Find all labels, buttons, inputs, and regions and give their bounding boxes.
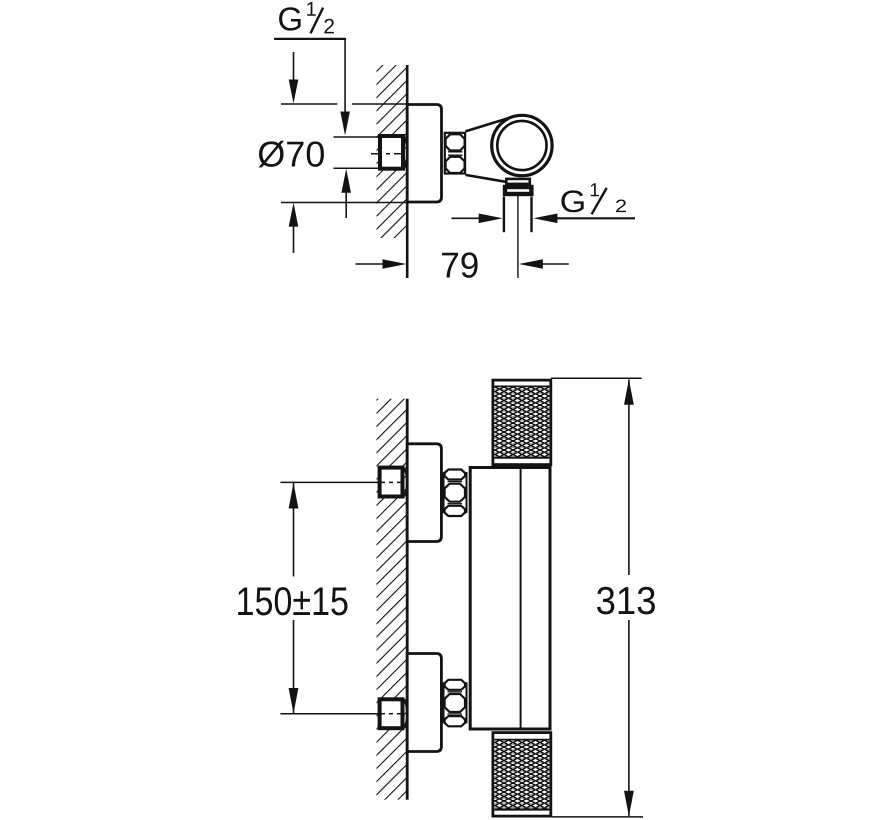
square union nut in wall (top view): [380, 136, 403, 169]
label G half top-left G: [279, 7, 301, 30]
extension line O70 lower: [334, 167, 379, 169]
hex connection nut (top view): [445, 133, 465, 174]
lower square union nut in wall: [380, 699, 403, 728]
extension line flange top: [281, 103, 337, 105]
dimension 313 arrowhead down: [624, 791, 634, 817]
upper knurled knob: [493, 380, 551, 465]
arrow up to O70 lower line: [345, 192, 347, 218]
escutcheon flange (top view): [407, 105, 441, 203]
holder ring outer circle: [492, 115, 552, 175]
label G half top-left underline: [274, 38, 346, 40]
upper escutcheon: [407, 444, 441, 542]
dimension line 313 lower part: [628, 620, 630, 816]
lower union nut chamfer arc: [404, 700, 407, 729]
holder cone top edge: [465, 117, 513, 132]
holder cone bottom edge: [465, 175, 508, 182]
dimension text 313: [597, 587, 655, 615]
lower escutcheon: [407, 654, 441, 752]
leader arrowhead down to union nut: [340, 112, 350, 136]
extension line 313 bottom: [552, 816, 643, 818]
arrow down to flange top extension line: [293, 52, 295, 81]
upper union nut chamfer arc: [404, 468, 407, 497]
body inner vertical line: [520, 467, 522, 729]
G half pipe dimension left arrow: [452, 217, 480, 219]
arrow up to flange bottom extension line: [293, 226, 295, 253]
dimension line 150 upper part: [293, 483, 295, 577]
extension line 313 top: [551, 377, 642, 379]
dimension line 150 lower part: [293, 620, 295, 713]
wall surface line (front view): [406, 399, 409, 800]
thermostat body: [470, 468, 550, 730]
extension line O70 upper: [334, 136, 379, 138]
dimension 79 right arrow: [519, 259, 543, 269]
label G half top-left numeral 2: [324, 19, 334, 34]
union nut chamfer arc (top view): [404, 136, 407, 168]
label G half right numeral 1: [591, 183, 599, 196]
dimension text 79: [442, 252, 478, 277]
pipe centerline: [517, 196, 519, 278]
hose pipe right edge: [530, 197, 532, 233]
label G half right fraction slash: [592, 188, 607, 214]
wall hatched section (front view): [377, 399, 408, 800]
upper union nut centerline: [376, 481, 404, 483]
leader line from G half label: [344, 39, 346, 114]
label G half top-left fraction slash: [311, 8, 324, 34]
union nut centerline (top view): [371, 153, 405, 155]
extension line flange bottom: [281, 202, 407, 204]
extension line lower connection: [280, 713, 378, 715]
label G half right: [561, 190, 583, 212]
lower hex union nut: [444, 680, 467, 727]
upper square union nut in wall: [380, 468, 403, 497]
dimension 150 arrowhead down: [289, 688, 299, 714]
dimension text O70: [259, 141, 324, 168]
upper hex union nut: [444, 470, 467, 517]
wall surface line (top view): [406, 65, 409, 278]
lower knurled knob: [493, 733, 551, 817]
dimension 79 left arrow: [356, 263, 385, 265]
hose pipe left edge: [503, 197, 505, 233]
wall hatched section (top view): [377, 65, 408, 238]
dimension 150 arrowhead up: [289, 483, 299, 509]
dimension 313 arrowhead up: [624, 379, 634, 405]
hose collar top band: [506, 179, 530, 184]
lower union nut centerline: [376, 713, 404, 715]
label G half right numeral 2: [616, 200, 626, 213]
extension line upper connection: [280, 481, 378, 483]
dimension text 150 plus-minus 15: [238, 587, 347, 615]
holder ring inner circle: [497, 121, 546, 170]
hose collar main band: [505, 187, 531, 194]
G half pipe dimension right arrow with label underline: [533, 214, 557, 224]
label G half top-left numeral 1: [307, 2, 316, 16]
dimension line 313 upper part: [628, 380, 630, 576]
